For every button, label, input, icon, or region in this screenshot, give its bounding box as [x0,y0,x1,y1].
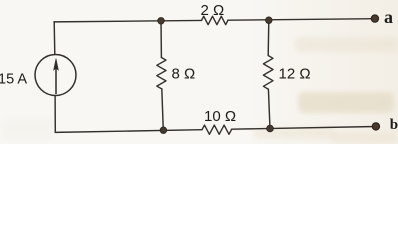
wire branch2 vertical [268,20,270,128]
svg-text:a: a [384,7,393,27]
svg-text:15 A: 15 A [0,72,27,88]
node junction bottom-right [267,125,274,132]
wire left vertical top [53,22,56,55]
svg-text:10 Ω: 10 Ω [204,108,236,125]
wire branch1 vertical [161,21,163,131]
resistor 8 ohm zigzag [157,58,166,89]
svg-text:b: b [390,117,398,133]
svg-text:2 Ω: 2 Ω [201,2,225,19]
current source arrow [54,59,59,95]
node junction bottom-left [160,127,167,134]
node junction top-right [266,17,273,24]
wire bottom right segment [232,127,376,130]
resistor 10 ohm zigzag [202,125,231,134]
terminal a dot [371,15,378,22]
svg-text:12 Ω: 12 Ω [279,66,311,83]
svg-text:8 Ω: 8 Ω [172,65,196,82]
current source 15A (circle) [35,55,76,96]
wire top left segment [54,20,202,21]
wire bottom left segment [55,130,202,133]
wire left vertical bottom [54,96,56,133]
terminal b dot [372,123,379,130]
node junction top-left [158,18,165,25]
ghost bleed-through stains (decorative) [0,0,398,144]
wire top right segment [228,19,375,21]
resistor 2 ohm zigzag [202,16,228,24]
resistor 12 ohm zigzag [263,56,273,90]
